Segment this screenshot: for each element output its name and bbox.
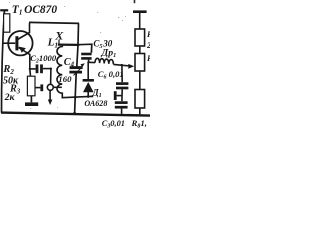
node diode top bbox=[87, 61, 89, 63]
ground symbol under R3 bbox=[25, 96, 38, 104]
capacitor C5 bbox=[79, 44, 92, 62]
svg-text:R: R bbox=[146, 30, 150, 39]
wire top rail collector to tank bbox=[29, 22, 79, 23]
choke Dr1 coil on line to potentiometer with arrow bbox=[88, 58, 134, 68]
wire left vertical (antenna lead down to base and bottom rail) bbox=[2, 11, 5, 113]
wire tank top bbox=[58, 43, 80, 46]
capacitor C2 (emitter, horizontal) bbox=[30, 64, 51, 73]
battery terminal bar top right bbox=[133, 12, 147, 29]
resistor R3 box bbox=[27, 69, 35, 96]
wire base from left lead to transistor bbox=[2, 42, 15, 44]
wire R4 to R5 bbox=[139, 46, 141, 54]
jack socket circle bbox=[47, 84, 53, 90]
terminal X0 top-left antenna input bbox=[0, 9, 8, 11]
wire R8 to rail bbox=[139, 108, 141, 116]
wire jack to coil bbox=[53, 86, 62, 88]
capacitor C3 bbox=[115, 103, 128, 116]
svg-text:ОА628: ОА628 bbox=[84, 99, 107, 108]
wire tank bottom to rail bbox=[74, 97, 77, 113]
scan speckles bbox=[9, 2, 126, 109]
wire bottom rail bbox=[1, 113, 150, 116]
diode D1 OA628 bbox=[83, 62, 94, 96]
svg-text:C21000: C21000 bbox=[30, 53, 57, 64]
potentiometer R5 box bbox=[135, 54, 145, 72]
transistor T1 (PNP, circle) bbox=[8, 23, 32, 69]
jack plug bar (headphone terminal left) bbox=[35, 84, 42, 91]
svg-text:T1ОС870: T1ОС870 bbox=[12, 4, 58, 17]
resistor R8 box bbox=[135, 90, 145, 109]
capacitor C6 bbox=[116, 65, 128, 101]
wire C2 down to jack circle bbox=[50, 69, 52, 85]
wire X stub to coil top bbox=[58, 40, 60, 45]
svg-text:R81,: R81, bbox=[131, 118, 147, 130]
node emitter junction bbox=[29, 68, 31, 70]
svg-text:2: 2 bbox=[146, 41, 150, 50]
svg-text:160: 160 bbox=[58, 74, 72, 84]
variable capacitor C4 bbox=[69, 63, 84, 97]
resistor R4 (right chain top box) bbox=[135, 29, 145, 46]
svg-text:R2: R2 bbox=[2, 64, 14, 76]
headphone terminal bar right bbox=[115, 91, 122, 100]
resistor R1 (cut off at left edge) bbox=[4, 14, 10, 32]
svg-text:Д1: Д1 bbox=[92, 88, 102, 100]
jack arrow down bbox=[48, 90, 53, 105]
svg-text:2к: 2к bbox=[4, 92, 16, 103]
wire detector bottom (coil bottom to diode) bbox=[62, 96, 94, 97]
svg-text:R: R bbox=[146, 54, 150, 63]
svg-text:C30,01: C30,01 bbox=[102, 119, 125, 130]
collector line up bbox=[18, 23, 30, 40]
node choke to C6 bbox=[121, 64, 123, 66]
svg-text:Др1: Др1 bbox=[101, 48, 117, 60]
wire stub top edge (cut) bbox=[134, 0, 136, 3]
svg-text:C6 0,01: C6 0,01 bbox=[98, 69, 124, 81]
wire R5 to R8 bbox=[139, 71, 141, 90]
inductor L1 coil bbox=[57, 45, 62, 97]
wire tank line from rail corner down bbox=[77, 23, 79, 66]
emitter line down with PNP arrow bbox=[19, 48, 30, 70]
